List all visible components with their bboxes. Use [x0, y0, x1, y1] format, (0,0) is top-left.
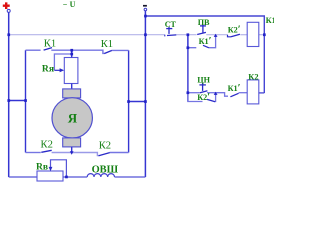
wire: motor bottom to K2 line	[71, 147, 73, 153]
junction K2' holding branch rejoin row2	[214, 92, 218, 95]
svg-text:U: U	[70, 0, 76, 9]
svg-text:Я: Я	[68, 111, 78, 126]
wire: -U jumper to bridge	[129, 101, 146, 103]
junction bridge right side / jumper	[127, 100, 130, 103]
svg-text:ЦН: ЦН	[197, 75, 210, 84]
relay coil K1	[247, 22, 259, 46]
junction K1' holding branch rejoin row1	[214, 34, 218, 37]
contact K2' row1 (NC interlock)	[228, 35, 232, 37]
junction motor to K2 contact line	[70, 151, 74, 155]
svg-text:Rв: Rв	[36, 162, 48, 173]
wire: bridge right vertical	[128, 50, 130, 152]
wire: field line y=177	[9, 176, 146, 178]
junction +U rail / top bus	[7, 33, 10, 36]
resistor Ra	[64, 58, 78, 84]
junction feeder / row1 bus	[187, 33, 190, 36]
junction Ra wiper line	[70, 53, 73, 56]
svg-text:ПВ: ПВ	[198, 18, 210, 27]
motor brush bottom	[63, 138, 81, 147]
svg-text:Rя: Rя	[42, 63, 54, 74]
wire: bridge left vertical	[25, 50, 27, 152]
contact K1' row2 (NO)	[216, 93, 228, 97]
junction feeder / K1' holding branch	[187, 46, 190, 49]
contact K2' blade row2	[207, 99, 215, 101]
wire: +U left rail vertical	[8, 12, 10, 177]
wire: K2' holding branch row2	[188, 93, 203, 102]
svg-text:К1′: К1′	[199, 36, 212, 47]
minus terminal mark	[143, 5, 147, 7]
motor brush top	[63, 89, 81, 98]
plus terminal mark	[3, 2, 10, 9]
wire: bottom K2 contact line y=152.5	[26, 153, 129, 156]
wire: pale bus y=34.7	[9, 34, 265, 36]
wire: Ra bottom to motor	[71, 84, 73, 90]
svg-text:К2: К2	[248, 73, 258, 82]
svg-text:К2: К2	[41, 139, 53, 150]
junction -U rail / top bus	[144, 33, 147, 36]
wire: -U rail vertical	[144, 11, 146, 177]
svg-text:К1: К1	[44, 39, 56, 50]
junction -U rail / bridge right jumper	[144, 100, 147, 103]
wire: K2 coil right link	[259, 92, 265, 94]
junction bridge left side / jumper	[24, 99, 27, 102]
motor armature circle	[52, 98, 92, 138]
junction +U rail / bridge left jumper	[7, 99, 10, 102]
svg-text:ОВШ: ОВШ	[92, 165, 119, 176]
svg-text:СТ: СТ	[165, 20, 177, 29]
svg-text:К2: К2	[99, 141, 111, 152]
contact K1 right blade	[104, 51, 111, 54]
wire: top K1 contact line y=50.2	[26, 50, 129, 53]
svg-text:К1: К1	[266, 16, 274, 25]
svg-text:К1: К1	[101, 39, 113, 50]
contact K2 left blade	[41, 150, 51, 152]
junction K1 coil right / -U drop	[263, 33, 266, 36]
svg-text:−: −	[63, 0, 68, 9]
wire: junction to Ra top	[71, 50, 73, 57]
junction feeder / row2 line	[187, 91, 190, 94]
rheostat Rv	[37, 171, 63, 181]
field winding OVSh inductor	[87, 174, 114, 177]
wire: top wire to K1 coil	[145, 16, 264, 93]
svg-text:К2′: К2′	[197, 92, 210, 103]
junction Rv slider short / field line	[65, 176, 68, 179]
svg-text:К2′: К2′	[228, 24, 241, 35]
wire: +U jumper to bridge	[9, 100, 26, 102]
relay coil K2	[247, 80, 259, 104]
Ra wiper arrow	[54, 69, 60, 71]
contact K1 left blade	[44, 48, 52, 51]
contact K2 right blade	[99, 153, 110, 156]
minus terminal circle	[144, 8, 147, 11]
wire: second line to Ra wiper	[54, 54, 71, 70]
contact K1' blade row1	[203, 45, 209, 48]
junction -U rail / top wire	[144, 15, 147, 18]
plus terminal circle	[7, 9, 10, 12]
control: ST pushbutton (NC)	[168, 27, 170, 34]
junction K1 contact line / Ra branch	[70, 49, 73, 52]
wire: vertical feeder x=187.9	[187, 35, 189, 102]
svg-text:К1′: К1′	[228, 83, 241, 94]
control: PV pushbutton (NO)	[202, 25, 204, 33]
Rv wiper arrow and short	[51, 160, 67, 177]
wire: branch B (K1' holding) row1	[188, 35, 196, 48]
control row2: TsN pushbutton (NO)	[188, 92, 199, 94]
